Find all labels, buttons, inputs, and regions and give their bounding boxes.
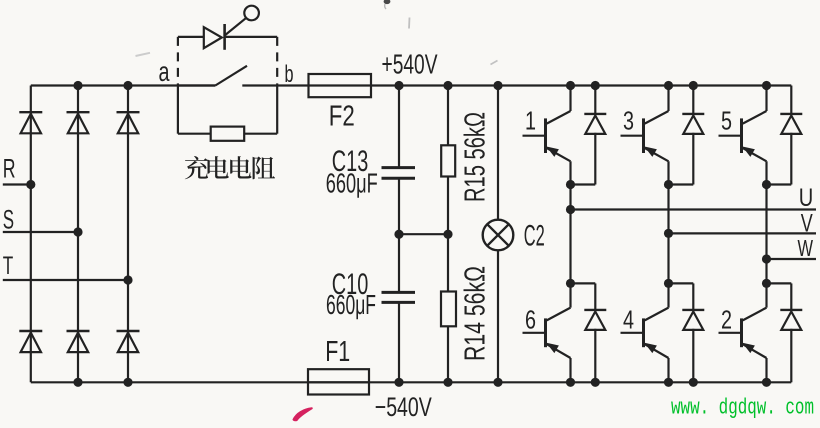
junction emitter/diode leg3 [762, 180, 771, 189]
diode VD2 (lower freewheel) [767, 283, 803, 382]
junction +bus / upper diode 1 [591, 81, 600, 90]
label charging resistor (Chinese) [185, 156, 275, 179]
wire cap column middle [398, 178, 400, 234]
wire resistor column upper [447, 86, 449, 146]
wire lamp column upper [497, 86, 499, 220]
wire resistor loop bottom left [178, 133, 211, 135]
svg-text:R: R [3, 154, 16, 184]
diode D1 (upper, column 1) [19, 112, 42, 133]
wire output U [571, 208, 817, 210]
diode VD5 (upper freewheel) [767, 86, 803, 185]
junction bottom bus / lamp column [493, 378, 502, 387]
wire a to switch [178, 84, 215, 86]
junction bottom bus / leg1 emitter [566, 378, 575, 387]
fuse F1 box [308, 369, 369, 394]
junction emitter/diode leg1 [566, 180, 575, 189]
junction bottom bus / column 3 [123, 378, 132, 387]
wire resistor loop right [276, 86, 278, 134]
label C13 value 660uF [326, 167, 378, 198]
diode VD4 (lower freewheel) [669, 283, 705, 382]
wire bottom bus (middle/right) [308, 381, 791, 383]
svg-text:4: 4 [623, 305, 634, 335]
resistor R14 box [441, 292, 456, 327]
diode VD3 (upper freewheel) [669, 86, 705, 185]
svg-text:T: T [3, 252, 14, 280]
wire leg3 midpoint column [765, 185, 767, 284]
scan artifact faint dash [136, 18, 410, 57]
junction top bus / column 2 [73, 81, 82, 90]
junction +bus / capacitor column [394, 81, 403, 90]
wire lamp column lower [497, 250, 499, 382]
label R15 56kOhm [460, 112, 492, 202]
watermark www.dgdqw.com [671, 394, 814, 420]
label 3 [623, 106, 634, 136]
scan artifact top tick [384, 0, 391, 9]
svg-text:−540V: −540V [375, 392, 432, 422]
wire resistor loop left [177, 86, 179, 134]
wire mid link [399, 233, 448, 235]
wire dashed riser at node a [177, 37, 179, 86]
disconnect lever handle circle [244, 6, 259, 21]
svg-text:1: 1 [525, 106, 536, 136]
label C13 [332, 145, 369, 178]
scan artifact faint diagonal [491, 61, 498, 65]
wire phase S input [3, 231, 78, 233]
label V [801, 210, 813, 238]
capacitor C10 [382, 292, 416, 302]
junction bottom bus / column 2 [73, 378, 82, 387]
wire resistor column mid-lower [447, 234, 449, 291]
junction +bus / lamp column [493, 81, 502, 90]
label R [3, 154, 16, 184]
label -540V [375, 392, 432, 422]
label C2 [524, 219, 545, 252]
junction bottom bus / resistor column [443, 378, 452, 387]
label R14 56kOhm [460, 266, 492, 361]
junction midpoint / lower collector leg2 [664, 279, 673, 288]
label T [3, 252, 14, 280]
junction bottom bus / lower diode 2 [689, 378, 698, 387]
wire +540V bus [371, 84, 791, 86]
wire cap column upper [398, 86, 400, 168]
node b label [285, 61, 294, 88]
junction mid link / resistor column [443, 230, 452, 239]
junction phase R / column 1 [26, 180, 35, 189]
svg-text:b: b [285, 61, 294, 88]
svg-text:+540V: +540V [382, 49, 438, 80]
label S [3, 205, 14, 235]
wire bypass top left [178, 36, 204, 38]
node a label [159, 56, 170, 87]
label U [799, 184, 814, 212]
diode VD6 (lower freewheel) [571, 283, 607, 382]
junction mid link / cap column [394, 230, 403, 239]
junction bottom bus / leg2 emitter [664, 378, 673, 387]
fuse F2 box [309, 74, 372, 97]
diode VD1 (upper freewheel) [571, 86, 607, 185]
wire left column 1 [30, 86, 32, 383]
junction bottom bus / cap column [394, 378, 403, 387]
wire leg1 midpoint column [569, 185, 571, 284]
svg-text:660μF: 660μF [326, 289, 376, 320]
transistor V1 (upper) [523, 86, 571, 185]
wire bottom bus (left section) [31, 381, 308, 383]
svg-text:F2: F2 [329, 101, 355, 133]
svg-text:www. dgdqw. com: www. dgdqw. com [671, 394, 814, 420]
svg-text:5: 5 [721, 106, 732, 136]
charging resistor box [211, 127, 245, 141]
junction bottom bus / lower diode 1 [591, 378, 600, 387]
svg-text:R15 56kΩ: R15 56kΩ [460, 112, 492, 202]
wire resistor column mid-upper [447, 177, 449, 235]
junction top bus / column 3 [123, 81, 132, 90]
svg-text:3: 3 [623, 106, 634, 136]
svg-text:C2: C2 [524, 219, 545, 252]
svg-text:2: 2 [721, 305, 732, 335]
wire cap column lower [398, 234, 400, 292]
svg-text:S: S [3, 205, 14, 235]
junction emitter/diode leg2 [664, 180, 673, 189]
label W [798, 235, 814, 261]
junction midpoint / lower collector leg3 [762, 279, 771, 288]
lamp C2 symbol [483, 220, 514, 251]
diode D2 (upper, column 2) [67, 112, 90, 133]
diode D6 (lower, column 3) [117, 331, 140, 352]
transistor V3 (upper) [621, 86, 669, 185]
junction +bus / leg2 collector [664, 81, 673, 90]
junction +bus / upper diode 2 [689, 81, 698, 90]
label F1 [325, 336, 350, 368]
wire output V [669, 232, 817, 234]
label +540V [382, 49, 438, 80]
transistor V4 (lower) [621, 283, 669, 382]
diode D4 (lower, column 1) [19, 331, 42, 352]
label C10 value 660uF [326, 289, 376, 320]
svg-text:V: V [801, 210, 813, 238]
junction +bus / leg3 collector [762, 81, 771, 90]
wire phase T input [3, 279, 128, 281]
junction midpoint / lower collector leg1 [566, 279, 575, 288]
wire dashed riser at node b [276, 37, 278, 86]
pink pen mark [294, 408, 312, 420]
capacitor C13 [382, 168, 416, 179]
wire leg2 midpoint column [667, 185, 669, 284]
wire top bus (left rectifier section) [31, 84, 216, 86]
transistor V5 (upper) [719, 86, 767, 185]
label 4 [623, 305, 634, 335]
junction bottom bus / leg3 emitter [762, 378, 771, 387]
junction output tap leg2 [664, 229, 673, 238]
label 6 [525, 305, 536, 335]
svg-text:660μF: 660μF [326, 167, 378, 198]
svg-text:a: a [159, 56, 170, 87]
wire bypass top right [226, 36, 278, 38]
diode D3 (upper, column 3) [117, 112, 140, 133]
wire resistor column bottom [447, 326, 449, 382]
wire output W [767, 258, 817, 260]
svg-text:W: W [798, 235, 814, 261]
label 5 [721, 106, 732, 136]
wire resistor loop bottom right [244, 133, 277, 135]
label F2 [329, 101, 355, 133]
resistor R15 box [441, 145, 455, 176]
junction +bus / leg1 collector [566, 81, 575, 90]
wire left column 2 [77, 86, 79, 383]
junction phase T / column 3 [123, 275, 132, 284]
thyristor/disconnect diode [204, 24, 225, 50]
wire left column 3 [127, 86, 129, 383]
svg-text:6: 6 [525, 305, 536, 335]
svg-text:R14 56kΩ: R14 56kΩ [460, 266, 492, 361]
junction phase S / column 2 [73, 227, 82, 236]
diode D5 (lower, column 2) [67, 331, 90, 352]
disconnect lever arm [225, 18, 247, 36]
label C10 [332, 268, 369, 301]
wire phase R input [3, 183, 31, 185]
transistor V2 (lower) [719, 283, 767, 382]
junction +bus / resistor column [443, 81, 452, 90]
wire switch fixed contact to b [242, 84, 277, 86]
transistor V6 (lower) [523, 283, 571, 382]
junction output tap leg1 [566, 205, 575, 214]
svg-text:U: U [799, 184, 814, 212]
wire cap column bottom [398, 302, 400, 382]
switch contact arm KM [215, 66, 247, 86]
junction output tap leg3 [762, 254, 771, 263]
label 2 [721, 305, 732, 335]
label 1 [525, 106, 536, 136]
svg-text:F1: F1 [325, 336, 350, 368]
wire b to fuse F2 [277, 84, 308, 86]
